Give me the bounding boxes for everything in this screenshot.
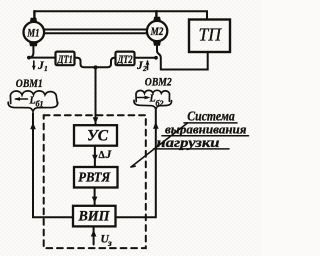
- svg-text:Δ: Δ: [99, 150, 106, 161]
- svg-text:М1: М1: [27, 25, 40, 39]
- svg-text:ОВМ2: ОВМ2: [145, 77, 172, 89]
- arrow field current ib2: [138, 97, 148, 99]
- svg-text:2: 2: [142, 64, 147, 73]
- wire return line to TP bottom: [161, 52, 208, 70]
- wire M1 bottom hook to armature line: [29, 47, 34, 58]
- label current J2 up: [136, 60, 147, 73]
- converter TP box: [189, 20, 230, 53]
- svg-text:М2: М2: [150, 24, 164, 38]
- label Uz: [101, 234, 113, 250]
- svg-text:РВТЯ: РВТЯ: [78, 169, 111, 184]
- wire M2 top drop: [155, 11, 157, 17]
- svg-text:ОВМ1: ОВМ1: [16, 78, 43, 90]
- brush M2 top: [154, 17, 161, 21]
- wire armature line Ya1: [29, 57, 56, 59]
- label nagruzki: [157, 135, 221, 150]
- brush M1 bottom: [30, 42, 38, 46]
- arrow J2 up: [147, 61, 149, 70]
- wire Uz input into VIP bottom: [93, 227, 95, 245]
- svg-text:ДТ1: ДТ1: [57, 52, 73, 66]
- brush M1 top: [30, 18, 37, 22]
- converter VIP box: [73, 206, 116, 227]
- motor M2: [147, 21, 167, 41]
- wire M1 top stub: [33, 11, 35, 18]
- field winding OVM1: [10, 91, 57, 104]
- label delta J: [99, 149, 113, 161]
- amplifier US box: [74, 125, 117, 146]
- field winding OVM2: [136, 90, 169, 101]
- label current J1 down: [37, 60, 48, 73]
- svg-text:б1: б1: [36, 100, 44, 109]
- node dip center junction: [94, 65, 98, 69]
- current sensor DT1: [56, 52, 75, 66]
- wire dip center down to US: [95, 67, 97, 125]
- svg-text:1: 1: [44, 64, 48, 73]
- arrow field current ib1: [16, 98, 28, 100]
- node M2 armature terminal: [154, 56, 158, 60]
- wire M2 bottom jog down to return line: [157, 46, 161, 70]
- regulator RVTYA box: [74, 167, 118, 188]
- label vyravnivaniya: [165, 122, 247, 137]
- svg-text:з: з: [107, 239, 112, 249]
- wire armature line Ya2: [135, 57, 156, 59]
- dashed system box: [44, 115, 146, 248]
- wire double line between M1 and M2: [44, 29, 147, 31]
- svg-text:ДТ2: ДТ2: [117, 52, 133, 66]
- wire RVTYA to VIP with arrow: [94, 188, 96, 206]
- wire top bus from M1 to TP: [34, 11, 207, 19]
- wire VIP left to OVM1: [33, 113, 73, 217]
- leader line to annotation: [131, 123, 188, 167]
- svg-text:б2: б2: [156, 99, 164, 108]
- arrow J1 down: [33, 61, 35, 69]
- svg-text:ВИП: ВИП: [78, 208, 111, 224]
- label ib2: [149, 94, 164, 108]
- motor M1: [24, 22, 45, 43]
- svg-text:УС: УС: [87, 127, 109, 144]
- label sistema: [187, 109, 235, 124]
- svg-text:ТП: ТП: [199, 25, 222, 45]
- node M1 armature terminal: [27, 56, 31, 60]
- label ib1: [29, 96, 44, 109]
- current sensor DT2: [116, 52, 135, 66]
- svg-text:нагрузки: нагрузки: [157, 135, 221, 150]
- wire VIP right to OVM2: [116, 110, 156, 217]
- wire dip between DT1 and DT2: [75, 58, 116, 68]
- brush M2 bottom: [154, 41, 161, 45]
- wire US to RVTYA with arrow: [94, 146, 96, 167]
